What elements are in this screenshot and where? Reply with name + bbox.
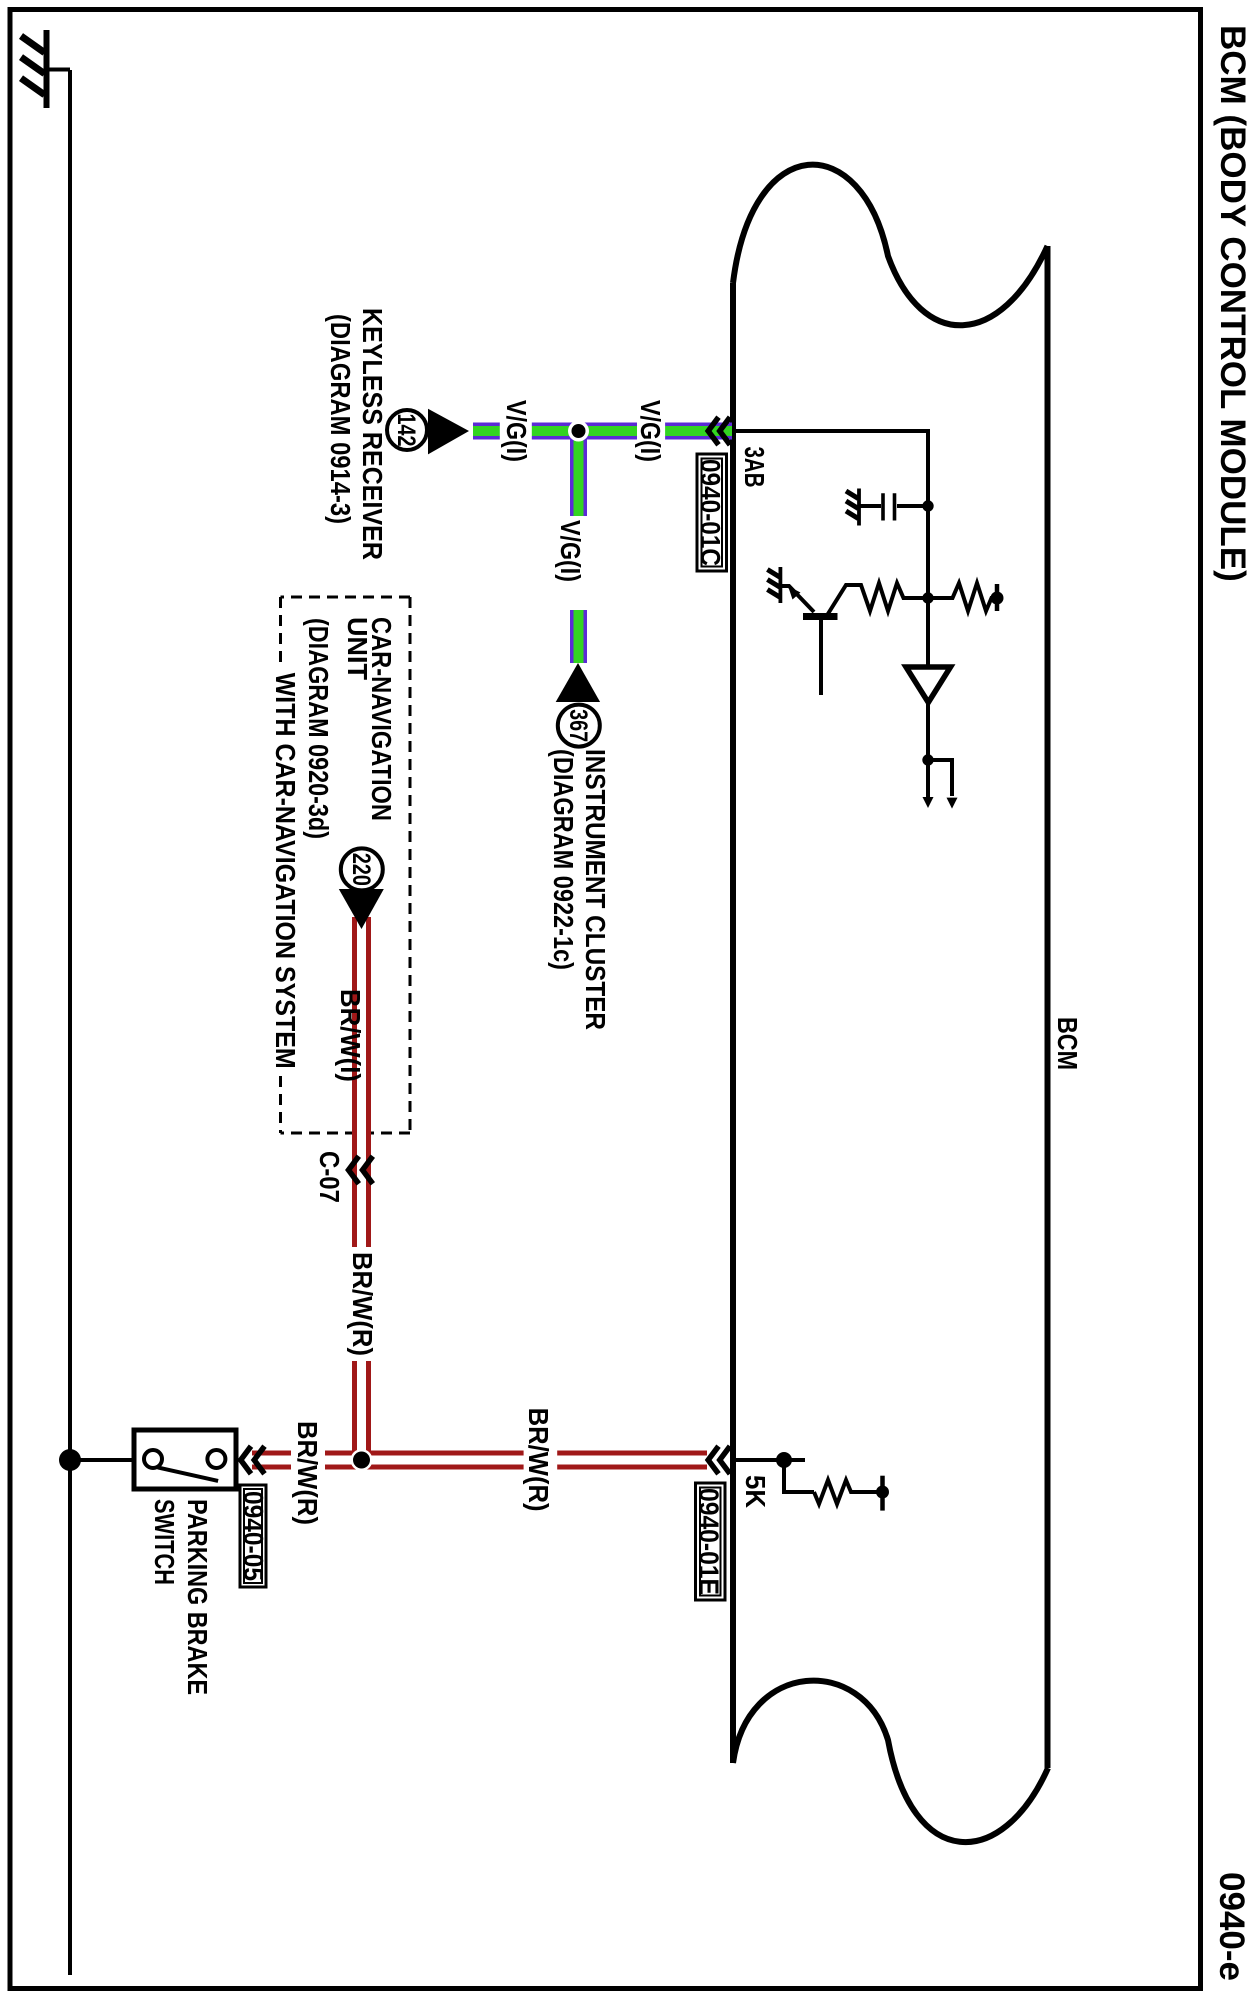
R3 terminal bar [880,1476,885,1511]
svg-text:BCM (BODY CONTROL MODULE): BCM (BODY CONTROL MODULE) [1213,25,1252,582]
R3 terminal dot [876,1486,889,1499]
chevron connector 5K [708,1446,730,1474]
svg-text:BR/W(I): BR/W(I) [335,989,366,1082]
arrowhead out 2 [947,798,958,809]
svg-text:PARKING BRAKE: PARKING BRAKE [182,1499,213,1695]
wire BR/W W4 white core [252,1456,707,1465]
chevron connector C-07 [349,1156,373,1184]
label gap W3 inline [351,1247,372,1361]
chevron connector 3AB [708,417,730,445]
switch blade [158,1467,218,1481]
svg-text:0940-01E: 0940-01E [694,1488,725,1595]
wire V/G W2 (to instrument cluster) violet [570,431,587,663]
buffer U1 triangle [906,667,951,703]
junction dot node A2 (resistors) [922,592,933,603]
arrowhead out 1 [923,797,934,808]
wire V/G W2 green core [574,441,584,664]
arrow 367 circle [558,705,600,747]
capacitor C1 plates [883,493,895,520]
rail terminal dot [991,592,1004,605]
chevron connector 0940-05 [241,1446,265,1474]
svg-text:(DIAGRAM 0922-1c): (DIAGRAM 0922-1c) [548,749,579,970]
label gap W2 [568,516,589,610]
transistor Q1 base bar [803,613,838,620]
resistor R3 [814,1480,883,1504]
connector box 0940-05 [238,1485,269,1587]
resistor R2 (node A to internal rail) [928,583,997,611]
wire BR/W W3 white core [357,917,366,1460]
label gap W4 lower [291,1450,325,1470]
switch lower wire to ground bus [70,1458,134,1462]
junction J2 dot [353,1452,370,1469]
parking brake switch box [134,1430,236,1489]
svg-text:367: 367 [564,709,592,742]
ground bus wire [68,70,72,1975]
ground bus junction dot [59,1449,81,1471]
connector box 0940-01C [695,454,727,571]
junction dot 5K [776,1452,792,1468]
ground G2 (capacitor) [857,489,861,526]
connector box 0940-01E [694,1483,726,1600]
arrow 220 circle [341,848,383,890]
svg-text:WITH CAR-NAVIGATION SYSTEM: WITH CAR-NAVIGATION SYSTEM [270,673,301,1069]
wire BR/W W3 (car-nav to junction) red [352,917,371,1460]
junction dot node A1 (capacitor) [922,500,933,511]
label gap W1 upper [637,420,665,442]
svg-text:5K: 5K [740,1475,771,1508]
junction J1 white ring [568,421,589,442]
svg-text:V/G(I): V/G(I) [501,400,532,462]
svg-text:V/G(I): V/G(I) [555,520,586,582]
transistor Q1 base stub [819,617,823,696]
transistor Q1 emitter [782,586,814,612]
junction dot node B [922,754,933,765]
wire BR/W W4 (pin 5K to switch) red [252,1451,707,1470]
label gap W4 [524,1450,558,1471]
svg-text:BR/W(R): BR/W(R) [292,1421,323,1525]
label gap W1 lower [500,420,532,442]
svg-text:(DIAGRAM 0920-3d): (DIAGRAM 0920-3d) [303,618,334,839]
svg-text:BCM: BCM [1052,1017,1083,1070]
BCM module outline [733,165,1048,1842]
switch contact lower [144,1450,162,1468]
wire V/G W1 (pin 3AB drop) violet [473,423,732,440]
transistor Q1 emitter arrow [788,586,801,600]
dashed box WITH CAR-NAVIGATION SYSTEM [281,597,411,1133]
svg-text:UNIT: UNIT [342,617,373,680]
svg-text:142: 142 [392,414,420,447]
svg-text:SWITCH: SWITCH [149,1499,180,1585]
svg-text:0940-05: 0940-05 [238,1491,269,1581]
svg-text:V/G(I): V/G(I) [635,400,666,462]
switch contact upper [207,1450,225,1468]
branch to resistor R3 [784,1460,814,1492]
arrow 367 triangle [556,663,600,702]
svg-text:BR/W(R): BR/W(R) [347,1252,378,1356]
svg-text:0940-e: 0940-e [1212,1872,1251,1981]
resistor R1 (node A to collector) [826,583,928,617]
arrow 142 triangle [428,409,469,455]
svg-text:BR/W(R): BR/W(R) [523,1408,554,1512]
wire pin 3AB to node A [731,431,928,799]
svg-text:(DIAGRAM 0914-3): (DIAGRAM 0914-3) [325,314,356,524]
svg-text:0940-01C: 0940-01C [695,459,726,566]
svg-text:INSTRUMENT CLUSTER: INSTRUMENT CLUSTER [580,749,611,1030]
ground G3 (emitter) [779,567,783,603]
wire pin 5K internal [731,1458,805,1462]
junction J1 dot [572,424,586,438]
arrow 142 circle [387,410,427,450]
wire V/G W1 green core [473,426,732,436]
junction J2 white ring [351,1449,373,1471]
svg-text:C-07: C-07 [314,1151,345,1203]
svg-text:220: 220 [347,853,375,886]
arrow 220 triangle [339,889,384,929]
ground G1 symbol [44,30,50,108]
ground stub [49,68,70,72]
svg-text:3AB: 3AB [739,447,770,488]
rail terminal bar [995,584,1000,611]
svg-text:KEYLESS RECEIVER: KEYLESS RECEIVER [357,308,388,560]
branch wire to arrows [928,760,952,796]
capacitor C1 branch wire [860,504,928,508]
